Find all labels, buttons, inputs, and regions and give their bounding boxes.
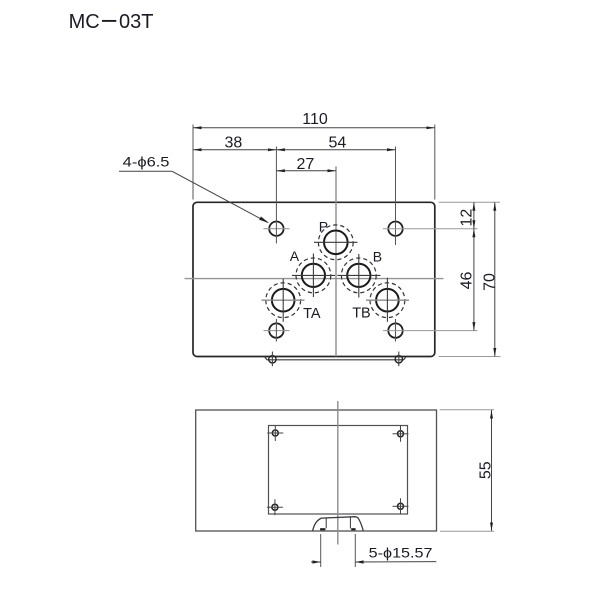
svg-text:TA: TA	[303, 306, 321, 322]
dim 5-phi15.57 extension lines	[320, 534, 322, 567]
locating pin right	[395, 356, 402, 363]
svg-text:03T: 03T	[119, 11, 153, 33]
bolt hole bottom-right (bottom view)	[398, 503, 404, 509]
dim 46	[473, 229, 475, 331]
dim 55 extension lines	[440, 409, 494, 411]
bottom view body outline	[196, 410, 437, 531]
bottom view vertical centerline	[337, 401, 339, 545]
dim 5-phi15.57	[311, 561, 321, 563]
svg-text:B: B	[373, 248, 382, 264]
port A	[302, 264, 325, 287]
dim 110 extension lines	[192, 125, 194, 200]
dim 27	[276, 170, 336, 172]
dim 55	[491, 410, 493, 531]
bore wall right	[349, 517, 351, 529]
svg-text:55: 55	[478, 461, 495, 479]
locating pin left	[269, 356, 276, 363]
main vertical centerline (P axis)	[335, 167, 337, 357]
svg-text:54: 54	[329, 135, 347, 152]
svg-text:110: 110	[302, 111, 328, 128]
dim 38/54 extension lines	[275, 147, 277, 244]
bolt hole bottom-left (bottom view)	[272, 504, 278, 510]
svg-text:4-ϕ6.5: 4-ϕ6.5	[123, 153, 170, 169]
svg-text:70: 70	[481, 273, 498, 291]
hole edge mark left	[320, 528, 325, 530]
dim 12	[473, 202, 475, 228]
mounting hole bottom-left	[269, 323, 283, 337]
top view body outline	[193, 202, 435, 356]
mounting hole top-right	[388, 222, 402, 236]
svg-text:5-ϕ15.57: 5-ϕ15.57	[369, 545, 433, 561]
svg-text:TB: TB	[352, 306, 371, 322]
svg-text:27: 27	[297, 156, 315, 173]
svg-text:P: P	[319, 219, 328, 235]
mounting hole top-left	[269, 222, 283, 236]
port boss (hat) profile	[313, 517, 364, 531]
dim 110	[193, 127, 435, 129]
hole edge mark right	[351, 528, 355, 530]
svg-text:A: A	[290, 248, 300, 264]
right side extension lines	[439, 201, 501, 203]
bottom step edge	[264, 357, 406, 360]
port TA	[272, 289, 295, 312]
svg-text:38: 38	[225, 135, 243, 152]
bolt hole top-right (bottom view)	[398, 431, 404, 437]
bore wall left	[325, 518, 327, 529]
svg-text:46: 46	[459, 272, 476, 290]
port B	[347, 264, 370, 287]
bolt hole top-left (bottom view)	[272, 430, 278, 436]
main horizontal centerline	[185, 278, 444, 280]
mounting hole bottom-right	[388, 323, 402, 337]
port P	[324, 231, 348, 255]
svg-text:MC: MC	[69, 11, 100, 33]
dim 70	[494, 202, 496, 356]
gasket face inner rectangle	[269, 426, 408, 515]
svg-text:12: 12	[459, 209, 476, 227]
dim 54	[276, 149, 395, 151]
dim 38	[193, 149, 276, 151]
port TB	[376, 289, 399, 312]
